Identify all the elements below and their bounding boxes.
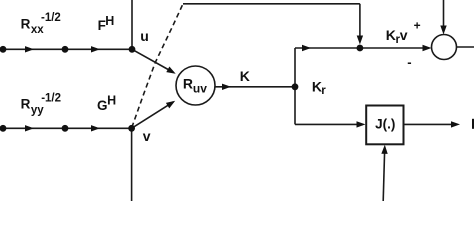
wire: output line from box J [404, 123, 458, 125]
arrowhead into summing junction (left) [423, 45, 432, 51]
arrowhead on u input line (second) [91, 46, 100, 52]
wire: vertical drop from top feedback line to node Krv [359, 4, 361, 41]
wire: dashed line from node v to top feedback line [132, 4, 183, 128]
wire: Krv horizontal line into summing junction [295, 47, 429, 49]
wire: arrow from bottom into box J [383, 148, 385, 201]
correlator circle Ruv [176, 66, 215, 105]
wire: u input horizontal line [0, 48, 132, 50]
wire: vertical from node K up to Krv line [294, 48, 296, 87]
svg-text:u: u [140, 28, 149, 44]
node dot: v line input [0, 125, 6, 132]
arrowhead on feedback drop into node Krv [357, 36, 363, 45]
wire: output line from summing junction [457, 46, 474, 48]
arrowhead on v-to-Ruv arrow [166, 98, 177, 108]
node dot: u line input [0, 46, 6, 53]
node dot: v line middle [62, 125, 69, 132]
svg-text:v: v [143, 128, 151, 144]
arrowhead into box J (bottom) [381, 145, 388, 154]
node u junction [129, 46, 136, 53]
summing junction circle [432, 35, 457, 60]
node dot: u line middle [62, 46, 69, 53]
svg-text:FH: FH [98, 14, 115, 33]
partial output letter at right edge [472, 119, 474, 129]
wire: vertical line up from node u [131, 0, 133, 49]
box J(.) [366, 106, 403, 145]
node v junction [128, 125, 135, 132]
wire: arrow from top into summing junction [443, 0, 445, 32]
svg-text:Kr: Kr [312, 78, 326, 97]
arrowhead into summing junction (top) [440, 26, 446, 35]
arrowhead on u input line (first) [25, 46, 34, 52]
svg-text:J(.): J(.) [375, 117, 395, 132]
wire: arrow from node u to correlator circle [132, 49, 174, 72]
svg-text:GH: GH [97, 93, 116, 112]
wire: vertical from node K down to J path [294, 87, 296, 125]
svg-text:K: K [240, 68, 250, 84]
arrowhead into box J (left) [357, 121, 366, 127]
wire: horizontal line into box J [295, 123, 363, 125]
arrowhead on K output line [222, 84, 231, 90]
svg-text:+: + [414, 19, 421, 33]
arrowhead on Krv line [302, 45, 311, 51]
arrowhead on v input line (second) [91, 125, 100, 131]
wire: top feedback horizontal line [183, 3, 360, 5]
wire: K output line from circle Ruv to node K [216, 86, 296, 88]
wire: vertical line down from node v [131, 128, 133, 201]
arrowhead on J output line [451, 121, 460, 127]
svg-text:Rxx-1/2: Rxx-1/2 [21, 12, 61, 36]
node K junction [292, 83, 299, 90]
wire: arrow from node v to correlator circle [132, 102, 174, 129]
wire: v input horizontal line [0, 127, 132, 129]
arrowhead on v input line (first) [25, 125, 34, 131]
node Krv junction [357, 45, 364, 52]
svg-text:Ryy-1/2: Ryy-1/2 [21, 93, 61, 117]
svg-text:-: - [407, 55, 411, 70]
arrowhead on u-to-Ruv arrow [166, 67, 177, 77]
svg-text:Krv: Krv [386, 27, 408, 46]
